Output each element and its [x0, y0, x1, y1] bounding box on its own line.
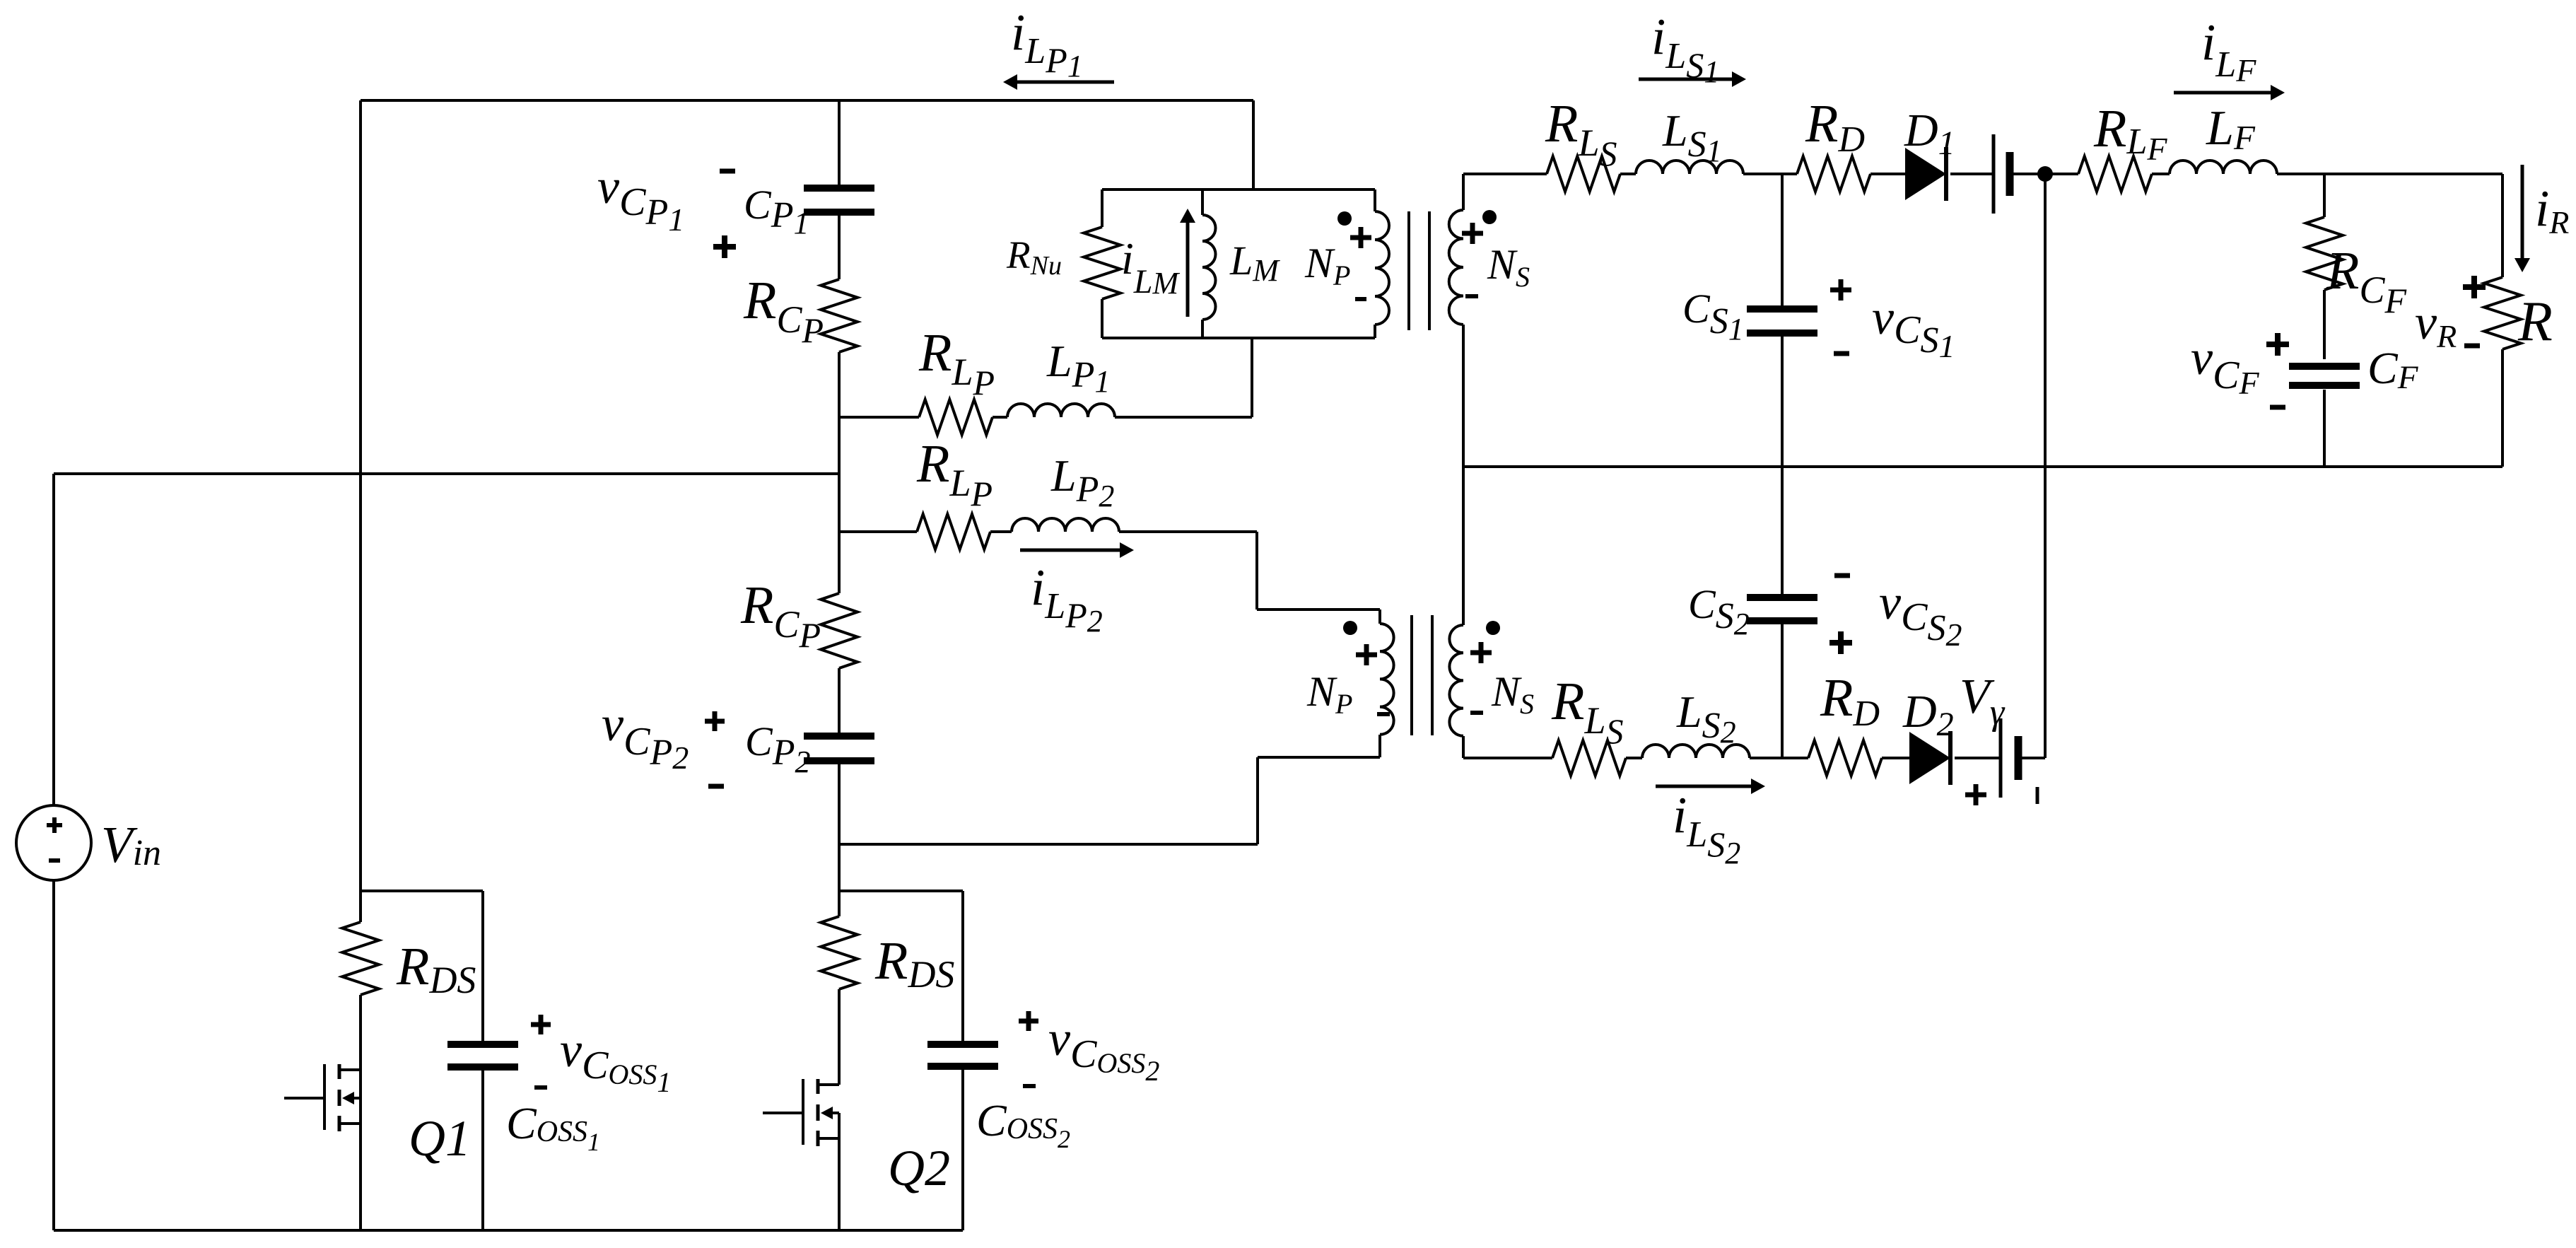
resistor RLP1	[919, 400, 993, 435]
wire D2 to battery Vgamma	[1955, 757, 2001, 759]
polarity Vgamma plus	[1965, 784, 1986, 805]
resistor RDS2	[821, 891, 857, 989]
wire LM box top feed	[1252, 100, 1255, 189]
wire CS2 bottom	[1781, 624, 1784, 758]
dot NP2 polarity	[1343, 621, 1357, 635]
wire Q1 source to ground bus	[359, 1098, 362, 1230]
label Vin	[101, 816, 161, 873]
wire LP1 to LM box	[1115, 338, 1252, 417]
label iLF	[2201, 13, 2256, 88]
transformer T2 primary winding NP	[1380, 610, 1394, 757]
polarity NP1 plus	[1350, 227, 1371, 248]
wire RD2 to D2	[1882, 757, 1909, 759]
wire RLP1 to LP1	[993, 416, 1007, 419]
wire Q1 top split	[361, 890, 483, 892]
wire Vin positive rail	[54, 472, 839, 475]
polarity CS1 minus	[1834, 351, 1849, 356]
capacitor CF	[2289, 366, 2360, 385]
wire LP2 left	[839, 530, 917, 533]
polarity Coss1 plus	[531, 1015, 551, 1034]
polarity CP1 plus	[713, 235, 736, 258]
current arrow iLP1	[1003, 74, 1114, 90]
wire bottom ground bus	[54, 1229, 963, 1232]
label NP (T1)	[1304, 240, 1350, 291]
label CP2	[745, 718, 810, 779]
battery Vgamma1	[1994, 134, 2010, 214]
label iLS2	[1673, 786, 1740, 870]
wire RCF to CF	[2323, 290, 2326, 359]
label CP1	[744, 182, 809, 240]
polarity Coss2 plus	[1019, 1011, 1038, 1031]
label RLF	[2093, 99, 2167, 167]
node B junction dot	[2037, 166, 2053, 182]
label R load	[2517, 291, 2553, 353]
label iLM	[1121, 233, 1180, 301]
current arrow iR	[2514, 165, 2530, 272]
wire LS1 to CS1 node	[1743, 173, 1797, 175]
inductor LF	[2170, 161, 2277, 174]
battery Vgamma2	[2001, 718, 2018, 798]
label NS (T1)	[1487, 241, 1530, 293]
wire left vertical leg 1 (node A down to Q1 drain)	[359, 100, 362, 891]
dot NS2 polarity	[1486, 621, 1500, 635]
wire LS2 to CS2 node	[1750, 757, 1808, 759]
label iR	[2535, 180, 2569, 240]
polarity CP1 minus	[720, 169, 735, 174]
capacitor CP2	[804, 736, 874, 761]
label CS2	[1688, 581, 1750, 641]
label RLP1	[918, 323, 995, 402]
wire Q2 top split	[839, 890, 963, 892]
wire NS2 to RLS2	[1463, 757, 1552, 759]
label CS1	[1682, 286, 1744, 346]
polarity Vgamma minus tick	[2036, 787, 2039, 804]
polarity CF minus	[2270, 405, 2285, 410]
resistor RNu (left edge of box)	[1084, 189, 1120, 338]
wire R bottom	[2501, 349, 2504, 467]
resistor RD1	[1797, 156, 1870, 192]
label LF	[2206, 101, 2256, 157]
resistor RCP1	[821, 279, 857, 352]
transistor Q1	[284, 1064, 361, 1131]
svg-text:Q2: Q2	[888, 1140, 950, 1196]
label Vgamma	[1960, 670, 2006, 733]
label vR	[2415, 296, 2457, 354]
current arrow iLS2	[1656, 778, 1765, 794]
transistor Q2	[763, 1079, 839, 1146]
resistor R load	[2484, 277, 2521, 349]
resistor RLS2	[1552, 740, 1626, 776]
polarity Coss1 minus	[534, 1085, 547, 1090]
wire Q1 drain-source vertical	[359, 1070, 362, 1131]
label iLP1	[1011, 4, 1083, 83]
resistor RLS1	[1547, 156, 1620, 192]
label vCS1	[1872, 291, 1955, 364]
wire CP1 top	[838, 100, 841, 185]
wire CF bottom	[2323, 390, 2326, 467]
polarity NS1 plus	[1462, 223, 1483, 244]
dot NP1 polarity	[1337, 211, 1352, 226]
label LP1	[1046, 336, 1110, 399]
polarity CP2 plus	[705, 711, 725, 731]
wire CS1 bottom to bus to CS2	[1781, 336, 1784, 596]
capacitor CS2	[1747, 597, 1817, 621]
label LS2	[1676, 687, 1736, 750]
dot NS1 polarity	[1482, 210, 1497, 224]
wire node B vertical	[2044, 174, 2047, 758]
polarity CF plus	[2266, 333, 2289, 356]
wire LM box bottom edge	[1102, 337, 1375, 339]
diode D2	[1909, 731, 1950, 785]
wire RDS2 to Q2 drain	[838, 989, 841, 1085]
diode D1	[1905, 147, 1946, 201]
wire NS1-NS2 center link	[1462, 325, 1465, 625]
wire Vin top vertical	[52, 474, 55, 806]
wire top bus (node A, switch-leg-1 top to LM box)	[361, 99, 1253, 102]
label RD2	[1820, 668, 1880, 734]
wire RLP2 to LP2	[990, 530, 1012, 533]
label RD1	[1805, 94, 1865, 160]
polarity CP2 minus	[708, 784, 724, 789]
inductor LP1	[1007, 404, 1115, 417]
resistor RLP2	[917, 514, 990, 549]
wire Coss1 bottom	[481, 1070, 484, 1230]
wire secondary bottom bus	[1463, 465, 2502, 468]
wire NP2 return	[839, 757, 1380, 844]
label vCP2	[602, 697, 689, 776]
wire RDS1 to Q1 drain	[359, 995, 362, 1070]
label RDS2	[874, 931, 954, 996]
capacitor CS1	[1747, 309, 1817, 333]
label vCF	[2191, 331, 2259, 401]
label vCS2	[1879, 576, 1962, 653]
label RLS1	[1545, 94, 1617, 173]
polarity Coss2 minus	[1023, 1084, 1036, 1088]
wire Vin bottom vertical	[52, 880, 55, 1230]
transformer T2 secondary winding NS	[1449, 625, 1463, 758]
label D2	[1902, 686, 1954, 743]
current arrow iLF	[2174, 85, 2285, 100]
resistor RLF	[2078, 156, 2152, 192]
label vCP1	[597, 160, 684, 238]
polarity NP2 minus	[1377, 712, 1390, 716]
label LS1	[1662, 105, 1722, 168]
wire RLS1 to LS1	[1620, 173, 1636, 175]
inductor LS1	[1636, 161, 1743, 174]
inductor LP2	[1012, 518, 1119, 532]
polarity CS1 plus	[1830, 279, 1851, 301]
label vCoss2	[1048, 1012, 1159, 1087]
label RCF	[2326, 241, 2406, 320]
wire right edge vertical top	[2501, 174, 2504, 277]
resistor RCP2	[821, 593, 857, 668]
wire RD1 to D1	[1870, 173, 1905, 175]
inductor LS2	[1642, 745, 1750, 758]
wire Q2 source to ground bus	[838, 1113, 841, 1230]
polarity NP1 minus	[1355, 297, 1366, 301]
label Q2	[888, 1140, 950, 1196]
wire RCP1 to LP nodes	[838, 352, 841, 593]
wire CP1 to RCP1	[838, 216, 841, 279]
polarity CS2 plus	[1829, 631, 1852, 654]
polarity NS2 plus	[1470, 642, 1492, 663]
resistor RCF	[2306, 217, 2343, 290]
label RCP2	[740, 576, 821, 655]
label RLS2	[1551, 672, 1623, 751]
polarity R plus	[2463, 276, 2486, 298]
wire RCF top	[2323, 174, 2326, 217]
wire LF to load corner	[2277, 173, 2502, 175]
wire NS1 to RLS1	[1463, 173, 1547, 175]
polarity R minus	[2464, 344, 2480, 349]
polarity CS2 minus	[1834, 573, 1850, 578]
wire CS1 top	[1781, 174, 1784, 306]
label RDS1	[396, 937, 476, 1001]
label NP (T2)	[1306, 668, 1352, 720]
label Q1	[409, 1110, 471, 1167]
wire RLS2 to LS2	[1626, 757, 1642, 759]
wire LP2 to NP2	[1119, 532, 1380, 610]
polarity NS2 minus	[1470, 711, 1483, 715]
polarity NP2 plus	[1356, 644, 1377, 665]
label NS (T2)	[1491, 668, 1534, 720]
resistor RDS1	[342, 891, 379, 995]
capacitor Coss1	[447, 1044, 518, 1067]
wire RCP2 to CP2	[838, 668, 841, 733]
transformer T1 core	[1409, 211, 1429, 330]
current arrow iLM	[1180, 209, 1195, 317]
source Vin	[16, 805, 91, 880]
wire Coss1 top	[481, 891, 484, 1042]
svg-text:R: R	[2517, 291, 2553, 353]
transformer T2 core	[1412, 615, 1432, 735]
transformer T1 primary winding NP	[1375, 189, 1389, 338]
svg-text:Q1: Q1	[409, 1110, 471, 1167]
wire Coss2 bottom	[961, 1069, 964, 1230]
wire LM box top edge	[1102, 188, 1375, 191]
label Coss1	[506, 1098, 600, 1156]
wire LP1 left	[839, 416, 919, 419]
current arrow iLP2	[1020, 542, 1134, 558]
current arrow iLS1	[1639, 71, 1746, 87]
label RLP2	[916, 434, 993, 513]
wire battery to node B corner	[2018, 757, 2045, 759]
wire CP2 bottom to Q2 drain node	[838, 764, 841, 891]
label vCoss1	[560, 1023, 671, 1098]
wire battery to node B	[2010, 173, 2078, 175]
label D1	[1904, 105, 1955, 162]
polarity NS1 minus	[1465, 294, 1478, 298]
label LM	[1229, 238, 1280, 288]
label RNu	[1006, 233, 1062, 281]
capacitor Coss2	[927, 1044, 998, 1066]
capacitor CP1	[804, 188, 874, 212]
inductor LM	[1202, 189, 1216, 338]
label LP2	[1050, 450, 1114, 513]
transformer T1 secondary winding NS	[1449, 174, 1463, 325]
label Coss2	[976, 1095, 1070, 1153]
label CF	[2367, 343, 2419, 396]
wire D1 to battery Vg1	[1950, 173, 1994, 175]
wire Coss2 top	[961, 891, 964, 1041]
wire RLF to LF	[2152, 173, 2170, 175]
resistor RD2	[1808, 740, 1882, 776]
label iLS1	[1651, 8, 1719, 89]
label RCP1	[743, 271, 824, 350]
label iLP2	[1031, 559, 1103, 638]
